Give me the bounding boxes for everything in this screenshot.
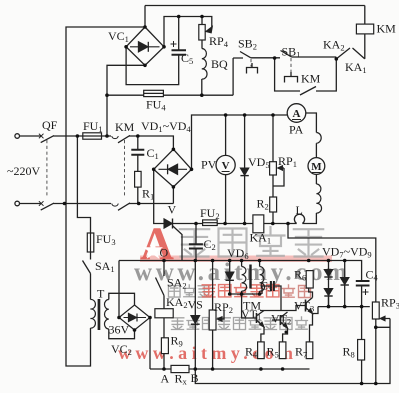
svg-text:RP4: RP4 bbox=[209, 34, 229, 49]
svg-text:C1: C1 bbox=[147, 146, 159, 161]
svg-text:VD7~VD9: VD7~VD9 bbox=[322, 245, 372, 260]
svg-text:VC1: VC1 bbox=[108, 29, 129, 44]
svg-text:KA2: KA2 bbox=[323, 38, 345, 53]
svg-text:VD6: VD6 bbox=[227, 246, 249, 261]
svg-text:RP2: RP2 bbox=[214, 300, 233, 315]
svg-text:KA1: KA1 bbox=[250, 231, 272, 246]
svg-text:R8: R8 bbox=[343, 345, 355, 360]
svg-text:KM: KM bbox=[301, 72, 321, 86]
svg-text:QF: QF bbox=[42, 118, 58, 132]
svg-text:FU3: FU3 bbox=[96, 232, 116, 247]
svg-text:M: M bbox=[311, 161, 322, 173]
svg-text:T: T bbox=[97, 287, 105, 301]
svg-text:KA1: KA1 bbox=[345, 60, 367, 75]
svg-text:R7: R7 bbox=[295, 345, 307, 360]
svg-text:SB1: SB1 bbox=[282, 45, 301, 60]
svg-text:KM: KM bbox=[377, 22, 397, 36]
svg-text:V: V bbox=[222, 160, 230, 172]
svg-text:VT3: VT3 bbox=[294, 299, 314, 314]
svg-text:B: B bbox=[191, 371, 199, 385]
svg-text:RP3: RP3 bbox=[381, 296, 399, 311]
svg-text:FU4: FU4 bbox=[146, 98, 166, 113]
svg-text:~220V: ~220V bbox=[7, 164, 40, 178]
svg-text:FU1: FU1 bbox=[83, 119, 103, 134]
svg-text:C4: C4 bbox=[366, 268, 379, 283]
svg-text:RP1: RP1 bbox=[278, 154, 297, 169]
svg-text:VD5: VD5 bbox=[248, 155, 270, 170]
svg-text:www.aitmy.com: www.aitmy.com bbox=[134, 259, 347, 286]
svg-text:C5: C5 bbox=[181, 51, 193, 66]
svg-text:36V: 36V bbox=[109, 323, 130, 337]
svg-text:R2: R2 bbox=[257, 197, 269, 212]
svg-text:O: O bbox=[160, 246, 169, 260]
svg-text:BQ: BQ bbox=[211, 57, 228, 71]
svg-text:PV: PV bbox=[201, 158, 217, 172]
svg-text:R9: R9 bbox=[171, 334, 183, 349]
svg-text:A: A bbox=[293, 108, 301, 120]
svg-text:PA: PA bbox=[289, 123, 304, 137]
svg-text:Rx: Rx bbox=[175, 372, 188, 387]
svg-text:R5: R5 bbox=[267, 345, 279, 360]
svg-text:C2: C2 bbox=[204, 237, 216, 252]
svg-text:R1: R1 bbox=[142, 187, 154, 202]
svg-text:KM: KM bbox=[115, 120, 135, 134]
svg-text:V: V bbox=[168, 203, 177, 217]
svg-text:VS: VS bbox=[188, 298, 203, 312]
svg-text:A: A bbox=[161, 372, 170, 386]
svg-text:VD1~VD4: VD1~VD4 bbox=[141, 119, 191, 134]
svg-text:L: L bbox=[296, 203, 303, 217]
svg-text:VT2: VT2 bbox=[271, 312, 291, 327]
svg-text:FU2: FU2 bbox=[200, 206, 220, 221]
svg-text:SA1: SA1 bbox=[95, 259, 115, 274]
svg-text:SB2: SB2 bbox=[238, 37, 257, 52]
